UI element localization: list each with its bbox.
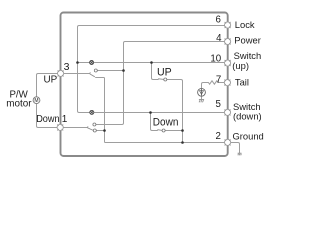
svg-text:5: 5 — [216, 99, 221, 110]
svg-text:Lock: Lock — [235, 19, 255, 30]
svg-text:M: M — [34, 98, 38, 104]
svg-text:6: 6 — [216, 14, 221, 25]
svg-text:Ground: Ground — [233, 131, 264, 142]
svg-text:7: 7 — [216, 74, 221, 85]
svg-text:UP: UP — [44, 74, 58, 85]
svg-text:Power: Power — [234, 35, 261, 46]
svg-text:motor: motor — [6, 99, 32, 110]
svg-text:10: 10 — [210, 54, 221, 65]
svg-text:Tail: Tail — [235, 77, 249, 88]
svg-text:3: 3 — [64, 61, 70, 73]
svg-text:Down: Down — [36, 114, 59, 125]
svg-text:2: 2 — [216, 131, 221, 142]
svg-text:1: 1 — [62, 114, 68, 125]
svg-text:4: 4 — [216, 33, 222, 44]
svg-text:Down: Down — [153, 117, 179, 129]
svg-text:UP: UP — [157, 67, 172, 79]
svg-text:(down): (down) — [233, 110, 262, 121]
svg-text:(up): (up) — [232, 60, 249, 71]
